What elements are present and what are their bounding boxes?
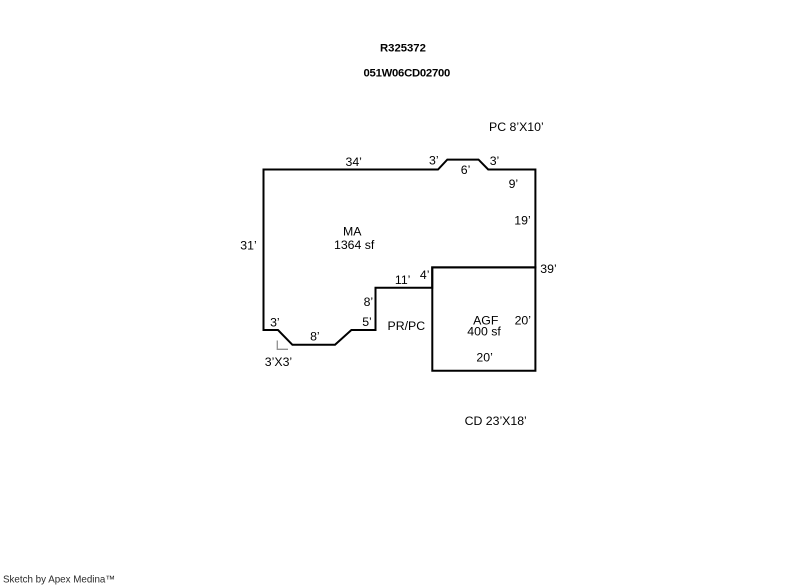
svg-text:31’: 31’: [240, 238, 256, 252]
svg-text:PC 8’X10’: PC 8’X10’: [489, 120, 544, 134]
svg-text:CD 23’X18’: CD 23’X18’: [465, 414, 527, 428]
svg-text:39’: 39’: [540, 262, 556, 276]
svg-text:20’: 20’: [515, 314, 531, 328]
svg-text:MA: MA: [343, 225, 362, 239]
svg-text:34’: 34’: [346, 155, 362, 169]
svg-text:3’: 3’: [270, 316, 280, 330]
svg-text:11’: 11’: [395, 273, 411, 287]
svg-text:4’: 4’: [420, 268, 430, 282]
svg-text:3’X3’: 3’X3’: [265, 355, 292, 369]
svg-text:400 sf: 400 sf: [467, 325, 501, 339]
svg-text:19’: 19’: [514, 214, 530, 228]
svg-text:5’: 5’: [362, 315, 372, 329]
svg-text:3’: 3’: [429, 154, 439, 168]
svg-text:R325372: R325372: [380, 43, 426, 55]
svg-text:051W06CD02700: 051W06CD02700: [364, 68, 451, 80]
svg-text:20’: 20’: [476, 351, 492, 365]
svg-text:Sketch by Apex Medina™: Sketch by Apex Medina™: [3, 574, 115, 585]
svg-text:3’: 3’: [490, 154, 500, 168]
svg-text:8’: 8’: [364, 295, 374, 309]
svg-text:6’: 6’: [461, 163, 471, 177]
svg-text:8’: 8’: [310, 330, 320, 344]
svg-text:1364 sf: 1364 sf: [334, 238, 375, 252]
svg-text:PR/PC: PR/PC: [388, 319, 426, 333]
svg-text:9’: 9’: [509, 177, 519, 191]
